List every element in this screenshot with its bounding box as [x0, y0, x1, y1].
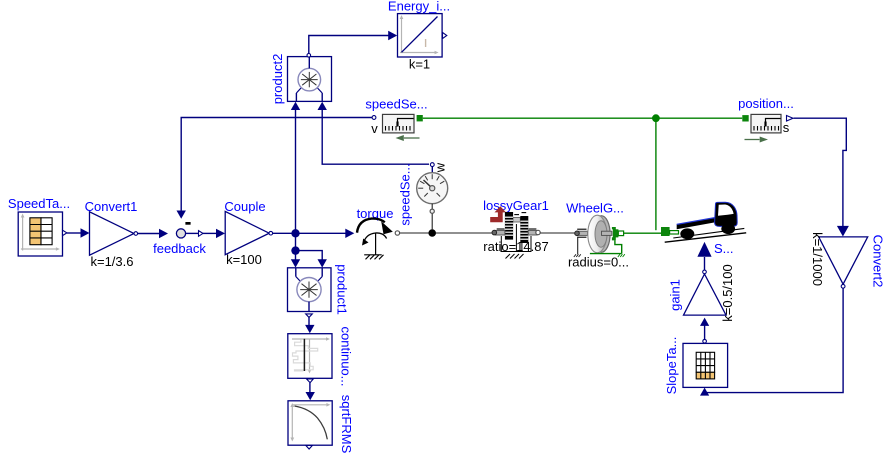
wire junction to product1.u2: [296, 251, 327, 268]
wire product2 left input arrow: [291, 102, 300, 110]
summing junction feedback: [153, 222, 206, 256]
support line and hatch: [577, 238, 579, 255]
junction for product1 inputs: [291, 246, 299, 254]
wire branch down to product1 junction: [295, 233, 297, 250]
wire Convert1.y to feedback.u1: [138, 229, 168, 238]
wire speedSensor.w to product2.u2: [318, 102, 430, 165]
sensor speedSensor1 (translational, top): [365, 97, 427, 142]
svg-text:Convert2: Convert2: [871, 235, 886, 288]
svg-text:lossyGear1: lossyGear1: [483, 198, 549, 213]
svg-text:k=0.5/100: k=0.5/100: [720, 264, 735, 321]
block product2: [270, 54, 332, 105]
block SlopeTable: [664, 337, 728, 395]
svg-text:WheelG...: WheelG...: [566, 201, 624, 216]
green open square: [618, 231, 623, 236]
green wire speedSensor1.flange to junction to positionSensor: [423, 117, 742, 119]
wire branch to product2.u1 (vertical): [295, 109, 297, 233]
right rod: [602, 231, 612, 235]
wire SpeedTable1.y to Convert1.u: [67, 228, 90, 237]
junction shaft / speed sensor: [428, 229, 436, 237]
svg-text:Energy_i...: Energy_i...: [388, 0, 450, 14]
shaft lossyGear1.flange_b to wheel: [540, 232, 575, 234]
wire gain1.y to vehicle slope input: [697, 242, 711, 270]
gain Convert1: [85, 199, 138, 269]
svg-text:k=1/3.6: k=1/3.6: [90, 254, 133, 269]
svg-text:sqrtFRMS: sqrtFRMS: [339, 395, 354, 454]
green connector bracket: [612, 227, 618, 240]
svg-text:k=100: k=100: [226, 252, 262, 267]
wire product2.y to Energy integrator: [309, 31, 397, 54]
axle between gears: [513, 217, 520, 222]
sensor positionSensor: [738, 96, 794, 143]
wire continuous.y to sqrtFRMS.u: [306, 383, 315, 401]
shaft torque.flange to lossyGear1.flange_a: [400, 232, 492, 234]
dashes: [497, 213, 537, 229]
vehicle (truck on slope): [665, 202, 747, 256]
block Energy integrator: [388, 0, 450, 72]
wire Couple.y to torque.tau: [273, 229, 355, 238]
svg-text:feedback: feedback: [153, 241, 206, 256]
svg-text:s: s: [783, 120, 790, 135]
dashes around left rod: [577, 228, 586, 230]
wire positionSensor.s to Convert2.u: [794, 118, 849, 236]
wire SlopeTable.y to gain1.u: [700, 318, 709, 340]
svg-text:position...: position...: [738, 96, 794, 111]
truck wheels: [680, 228, 694, 239]
component lossyGear1: [483, 198, 549, 259]
gain Convert2: [810, 232, 886, 288]
block sqrtFRMS: [288, 395, 354, 454]
wire product1.y to continuous.u: [305, 317, 314, 333]
green wire junction down to vehicle flange: [655, 118, 657, 230]
block SpeedTable1: [8, 196, 70, 256]
green junction: [652, 114, 660, 122]
truck cab: [715, 202, 738, 226]
svg-text:v: v: [371, 121, 378, 136]
svg-text:k=1/1000: k=1/1000: [810, 232, 825, 286]
wire Convert2.y to SlopeTable.u: [700, 288, 843, 395]
wire feedback.y to Couple.u: [186, 229, 225, 238]
svg-text:product1: product1: [335, 264, 350, 315]
svg-text:gain1: gain1: [668, 279, 683, 311]
green open connector to truck: [670, 231, 679, 234]
svg-text:continuo...: continuo...: [339, 327, 354, 387]
svg-text:product2: product2: [270, 54, 285, 105]
svg-text:S...: S...: [714, 241, 734, 256]
right gear: [520, 216, 528, 243]
svg-text:speedSe...: speedSe...: [365, 97, 427, 112]
support frame: [501, 224, 532, 259]
gain Couple: [224, 199, 272, 267]
truck flatbed: [677, 218, 715, 230]
sensor speedSensor (rotational gauge): [398, 162, 448, 230]
wire junction to product1.u1: [291, 251, 300, 268]
svg-text:Couple: Couple: [224, 199, 265, 214]
gain gain1: [668, 264, 736, 321]
wire speedSensor1.v to feedback.u2 (vertical drop): [177, 118, 373, 219]
green wire wheel to vehicle: [624, 232, 661, 234]
svg-text:ratio=14.87: ratio=14.87: [483, 239, 548, 254]
green support path: [615, 240, 622, 253]
green fixed line under wheel: [590, 253, 622, 255]
left gear: [505, 212, 513, 240]
svg-text:radius=0...: radius=0...: [568, 255, 629, 270]
left rod: [578, 231, 588, 235]
svg-text:w: w: [433, 162, 448, 173]
red arrow: [490, 206, 506, 222]
component WheelGroup: [566, 201, 629, 270]
svg-text:speedSe...: speedSe...: [398, 163, 413, 225]
block product1: [288, 264, 350, 317]
svg-text:SlopeTa...: SlopeTa...: [664, 337, 679, 395]
svg-text:Convert1: Convert1: [85, 199, 138, 214]
shafts: [495, 230, 505, 235]
block continuousMean: [288, 327, 354, 387]
torque source: [357, 206, 394, 259]
svg-text:k=1: k=1: [409, 57, 430, 72]
road lines: [673, 228, 744, 238]
svg-text:SpeedTa...: SpeedTa...: [8, 196, 70, 211]
green vehicle flange square: [661, 227, 670, 236]
green hatch: [618, 254, 625, 257]
junction on torque line (x=295.5): [291, 229, 299, 237]
torque flange circle: [395, 231, 399, 235]
